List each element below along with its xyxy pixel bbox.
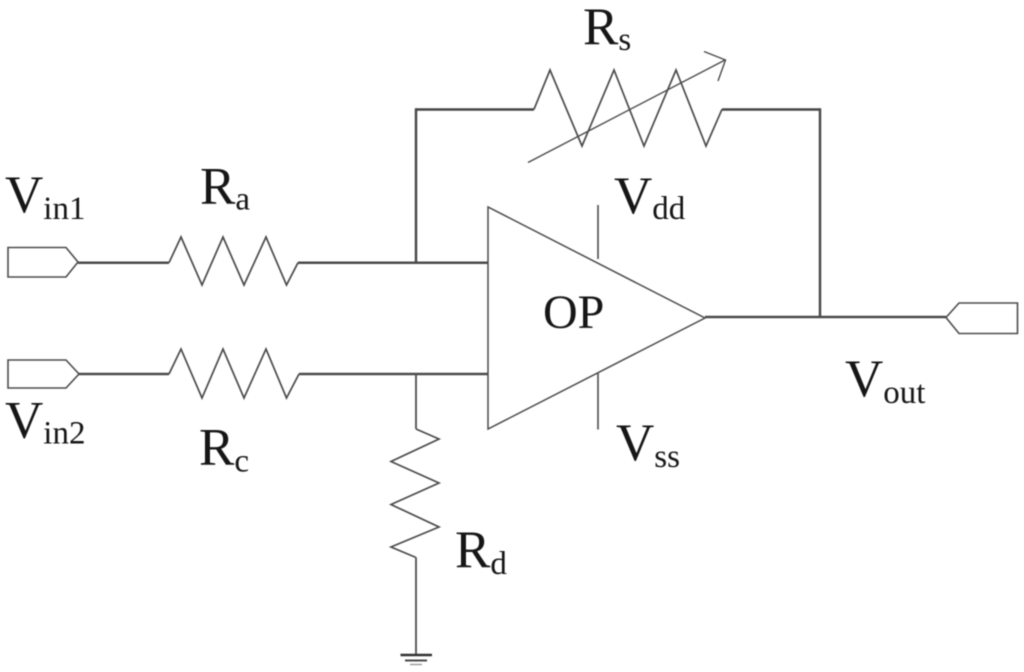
- input terminal Vin1: [8, 248, 78, 278]
- wire op-amp output: [705, 316, 946, 319]
- svg-text:Vin1: Vin1: [5, 166, 85, 227]
- resistor Rc: [169, 349, 299, 398]
- ground: [401, 654, 433, 657]
- pin Vdd: [597, 205, 599, 259]
- svg-text:Vout: Vout: [845, 350, 925, 411]
- wire Vin1 to Ra: [78, 261, 169, 264]
- output terminal Vout: [946, 303, 1018, 334]
- wire Vin2 to Rc: [79, 373, 169, 376]
- arrow of variable resistor Rs: [528, 60, 725, 163]
- wire feedback top right segment: [722, 108, 820, 111]
- wire Ra to op-amp inverting input: [298, 261, 488, 264]
- resistor Rd: [391, 429, 439, 558]
- wire Rd to ground: [415, 558, 417, 656]
- node: feedback tap vertical wire: [415, 108, 418, 263]
- svg-text:Rs: Rs: [583, 0, 631, 58]
- svg-text:Vss: Vss: [616, 414, 680, 475]
- op-amp OP: [488, 207, 705, 429]
- svg-text:Vin2: Vin2: [5, 392, 85, 452]
- svg-text:Rc: Rc: [199, 419, 249, 480]
- resistor Ra: [169, 237, 298, 285]
- input terminal Vin2: [8, 360, 79, 388]
- svg-text:OP: OP: [543, 286, 604, 339]
- wire feedback top left segment: [416, 108, 534, 111]
- svg-text:Rd: Rd: [455, 521, 507, 582]
- svg-text:Vdd: Vdd: [614, 167, 686, 227]
- wire feedback right vertical: [819, 108, 822, 317]
- pin Vss: [597, 373, 599, 430]
- svg-text:Ra: Ra: [200, 158, 250, 218]
- wire node to Rd: [415, 374, 417, 429]
- resistor Rs (variable): [534, 70, 722, 146]
- wire Rc to op-amp non-inverting input: [299, 373, 488, 376]
